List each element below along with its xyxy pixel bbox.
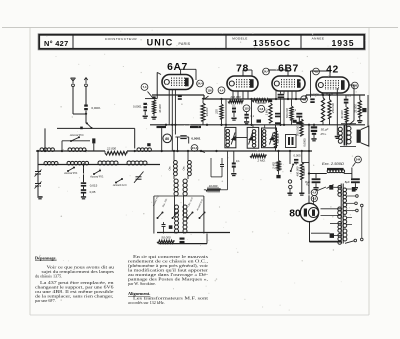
svg-text:CONSTRUCTEUR: CONSTRUCTEUR [105, 37, 138, 41]
svg-text:35.000: 35.000 [158, 104, 162, 113]
svg-text:8µF: 8µF [345, 180, 350, 184]
svg-text:0,0005: 0,0005 [302, 138, 306, 147]
svg-text:1935: 1935 [331, 38, 354, 48]
svg-text:par une 6F7.: par une 6F7. [35, 298, 56, 303]
svg-text:0,015: 0,015 [90, 183, 98, 187]
svg-text:Accord P.O.: Accord P.O. [89, 175, 104, 179]
svg-text:259: 259 [353, 84, 358, 88]
svg-text:225: 225 [215, 109, 219, 115]
svg-text:MODELE: MODELE [232, 37, 247, 41]
svg-text:78: 78 [236, 64, 249, 75]
svg-text:24,4: 24,4 [192, 146, 198, 150]
svg-text:2 MΩ.: 2 MΩ. [256, 158, 265, 162]
svg-text:42: 42 [326, 65, 339, 76]
svg-text:110: 110 [244, 106, 249, 110]
svg-text:UNIC: UNIC [147, 38, 174, 48]
svg-text:4,8: 4,8 [312, 197, 316, 201]
svg-text:Osc.: Osc. [170, 165, 172, 170]
svg-text:Accord G.O.: Accord G.O. [112, 183, 128, 187]
svg-text:400.000: 400.000 [296, 166, 300, 176]
svg-text:25 v.: 25 v. [319, 132, 326, 136]
svg-text:N° 427: N° 427 [44, 39, 68, 48]
svg-text:34.000: 34.000 [205, 107, 209, 116]
svg-text:0,0005: 0,0005 [310, 92, 319, 96]
svg-text:Accord P.O.: Accord P.O. [63, 171, 78, 175]
svg-text:80: 80 [289, 209, 301, 220]
svg-text:80: 80 [165, 137, 169, 141]
svg-text:par W. Sorokine.: par W. Sorokine. [128, 281, 156, 286]
svg-text:PARIS: PARIS [179, 42, 191, 46]
svg-text:4,8: 4,8 [314, 70, 318, 74]
svg-text:Osc.: Osc. [184, 165, 186, 170]
svg-text:50.000: 50.000 [161, 235, 171, 239]
svg-text:ANNEE: ANNEE [312, 37, 325, 41]
svg-text:Accord P.O.: Accord P.O. [69, 133, 84, 137]
svg-text:0,0001: 0,0001 [133, 104, 142, 108]
svg-text:0,1: 0,1 [292, 108, 296, 112]
svg-text:0,05: 0,05 [90, 190, 96, 194]
svg-text:244: 244 [356, 158, 361, 162]
svg-text:Dépannage.: Dépannage. [35, 256, 57, 261]
svg-text:4,8: 4,8 [259, 107, 263, 111]
svg-text:accordés sur 132 kHz.: accordés sur 132 kHz. [128, 300, 165, 305]
svg-text:2 MΩ: 2 MΩ [272, 162, 276, 170]
svg-text:0,1: 0,1 [236, 159, 240, 163]
svg-text:6B7: 6B7 [278, 64, 299, 75]
svg-text:du châssis 1375.: du châssis 1375. [35, 274, 62, 279]
svg-text:0,005: 0,005 [294, 154, 301, 158]
svg-text:200.000: 200.000 [229, 95, 241, 99]
svg-text:40.000: 40.000 [340, 110, 344, 119]
svg-text:24,4: 24,4 [197, 82, 203, 86]
svg-text:22.000: 22.000 [106, 146, 117, 150]
svg-text:500.000: 500.000 [285, 108, 289, 119]
svg-text:116: 116 [207, 88, 212, 92]
svg-text:1355OC: 1355OC [253, 38, 291, 48]
svg-text:0,1: 0,1 [347, 94, 351, 98]
svg-text:1 MΩ: 1 MΩ [264, 108, 268, 116]
svg-text:6A7: 6A7 [167, 62, 188, 73]
svg-text:4,4: 4,4 [312, 191, 316, 195]
svg-text:7,4: 7,4 [143, 85, 147, 89]
svg-text:Exc. 2.500Ω: Exc. 2.500Ω [322, 161, 344, 166]
svg-text:50 µF: 50 µF [321, 127, 329, 131]
svg-text:4,8: 4,8 [302, 97, 306, 101]
svg-text:0,0001: 0,0001 [191, 136, 201, 140]
svg-text:500.000: 500.000 [295, 126, 299, 137]
svg-text:8µF: 8µF [305, 180, 310, 184]
svg-text:0,1: 0,1 [232, 103, 236, 107]
svg-text:4,4: 4,4 [220, 88, 224, 92]
